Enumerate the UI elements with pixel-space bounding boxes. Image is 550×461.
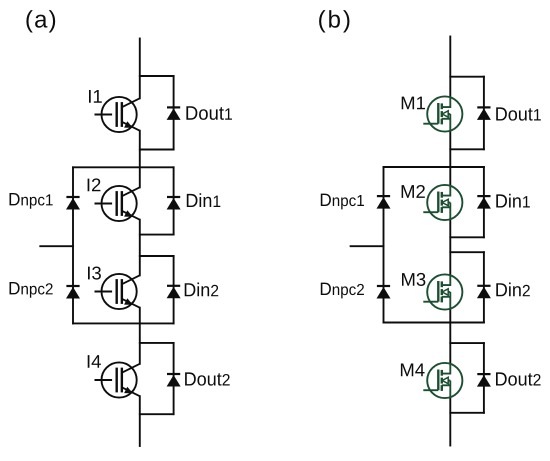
wire Dout1 box top a <box>140 75 174 77</box>
wire Dout1 branch a <box>173 76 175 150</box>
wire Dout2 box bottom b <box>450 412 484 414</box>
label (a) <box>26 10 55 32</box>
transistor I3 <box>95 274 140 309</box>
wire Dout2 branch b <box>483 343 485 413</box>
wire rail 2-3 a <box>139 220 141 276</box>
label Dnpc2 b <box>321 283 364 299</box>
wire Din2 top a <box>140 255 174 257</box>
wire midpoint stub b <box>351 245 384 247</box>
wire Dout2 box bottom a <box>140 413 174 415</box>
wire npc box bottom a <box>73 322 174 324</box>
transistor M4 <box>423 363 462 398</box>
label M3 <box>402 273 425 286</box>
wire Dout2 branch a <box>173 343 175 414</box>
label (b) <box>319 10 349 32</box>
label I1 <box>89 90 102 103</box>
diode Din1 a <box>167 197 181 210</box>
label Dout2 b <box>496 372 541 385</box>
wire Dout2 box top b <box>450 342 484 344</box>
label I3 <box>88 266 101 279</box>
label Dout1 a <box>186 106 232 120</box>
wire bottom rail a <box>139 396 141 446</box>
wire top rail a <box>139 39 141 99</box>
diode Din1 b <box>477 196 491 209</box>
wire Din2 top b <box>450 251 484 253</box>
wire npc box top b <box>384 166 484 168</box>
wire rail 3-4 b <box>449 309 451 364</box>
wire Din1 bottom b <box>450 236 484 238</box>
wire rail 2-3 b <box>449 219 451 275</box>
wire Din1 branch b <box>483 167 485 237</box>
wire Dout1 box bottom b <box>450 148 484 150</box>
transistor I2 <box>95 186 140 221</box>
label M2 <box>402 185 425 198</box>
transistor M3 <box>423 274 462 309</box>
wire Dout1 box top b <box>450 76 484 78</box>
label M4 <box>401 363 425 376</box>
wire midpoint stub a <box>40 245 73 247</box>
label Dnpc1 b <box>321 194 364 210</box>
label Dout2 a <box>185 372 230 385</box>
wire Dout1 box bottom a <box>140 149 174 151</box>
label M1 <box>402 97 425 110</box>
diode Dnpc1 a <box>66 197 80 210</box>
wire rail 1-2 b <box>449 131 451 186</box>
label Dnpc1 a <box>10 193 53 209</box>
label Din2 a <box>185 283 219 297</box>
wire rail 3-4 a <box>139 308 141 364</box>
label Din2 b <box>496 283 530 297</box>
wire rail 1-2 a <box>139 131 141 188</box>
wire bottom rail b <box>449 397 451 445</box>
wire Din1 bottom a <box>140 234 174 236</box>
diode Dout2 a <box>167 374 181 387</box>
wire npc box bottom b <box>384 322 484 324</box>
diode Din2 a <box>167 286 181 299</box>
wire npc left rail b <box>383 167 385 323</box>
wire Din1 branch a <box>173 167 175 234</box>
label I4 <box>88 355 101 368</box>
diode Din2 b <box>477 286 491 299</box>
diode Dout1 a <box>167 107 181 120</box>
transistor M2 <box>423 185 462 220</box>
diode Dout2 b <box>477 374 491 387</box>
wire top rail b <box>449 37 451 98</box>
transistor I1 <box>95 97 140 132</box>
label I2 <box>88 178 101 191</box>
label Din1 b <box>496 194 530 208</box>
label Din1 a <box>187 193 221 207</box>
wire Din2 branch b <box>483 252 485 322</box>
transistor M1 <box>423 96 462 131</box>
diode Dnpc1 b <box>377 196 391 209</box>
label Dnpc2 a <box>10 282 53 298</box>
diode Dnpc2 b <box>377 286 391 299</box>
transistor I4 <box>95 362 140 397</box>
label Dout1 b <box>496 107 541 120</box>
wire Dout2 box top a <box>140 342 174 344</box>
wire Din2 branch a <box>173 256 175 323</box>
wire npc left rail a <box>72 167 74 323</box>
wire Dout1 branch b <box>483 77 485 150</box>
diode Dout1 b <box>477 107 491 120</box>
diode Dnpc2 a <box>66 286 80 299</box>
wire npc box top a <box>73 166 174 168</box>
